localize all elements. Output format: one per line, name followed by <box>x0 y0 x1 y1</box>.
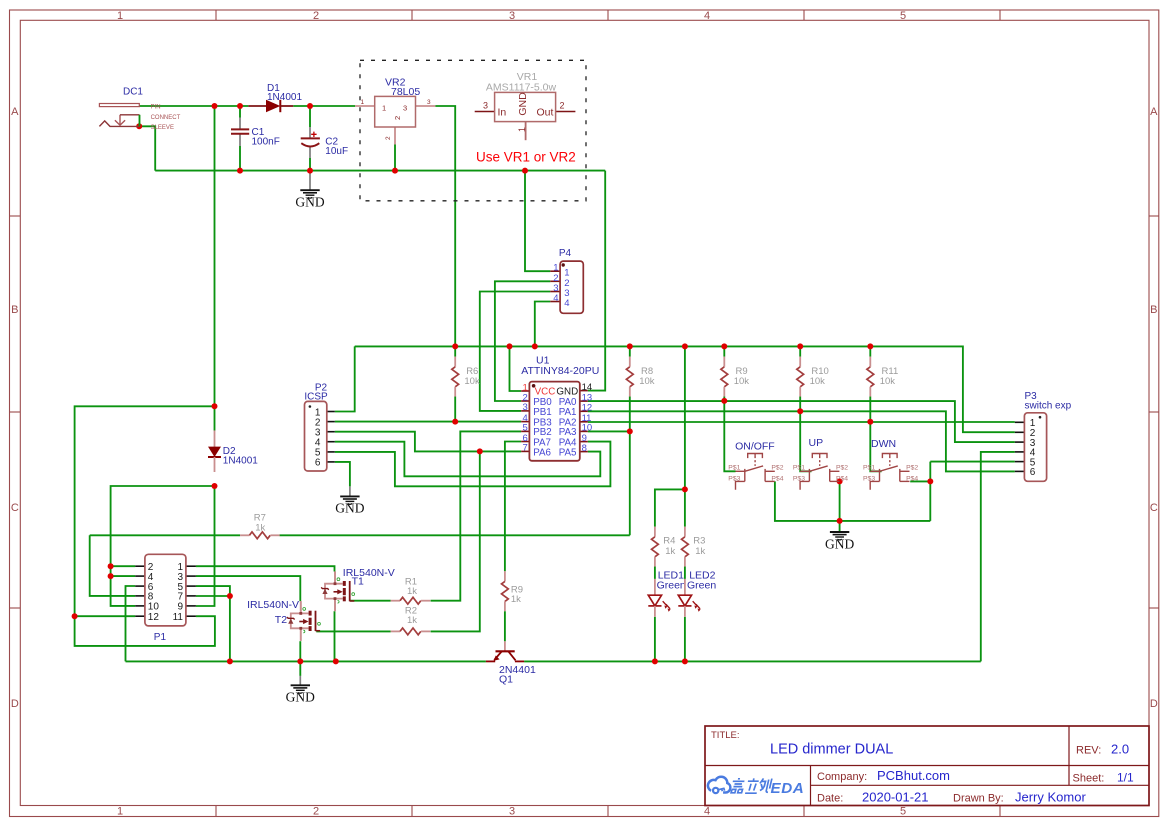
wire P1 pin12 <box>75 615 136 617</box>
svg-text:2: 2 <box>313 10 319 22</box>
button UP <box>793 437 848 490</box>
svg-text:UP: UP <box>809 437 824 449</box>
svg-text:PA6: PA6 <box>533 447 551 458</box>
wire PA0 row to P3 pin3 <box>588 401 1015 442</box>
svg-text:PA5: PA5 <box>559 447 577 458</box>
svg-text:Company:: Company: <box>817 771 867 783</box>
diode D2 1N4001 <box>208 430 258 472</box>
resistor R6 10k <box>452 357 480 397</box>
ic U1 ATTINY84-20PU <box>521 355 599 461</box>
connector P4 <box>550 248 583 313</box>
svg-text:B: B <box>11 304 18 316</box>
svg-text:4: 4 <box>704 10 710 22</box>
svg-text:PCBhut.com: PCBhut.com <box>877 768 950 783</box>
wire P2 pin4 to U1 pin8 PA5 <box>335 442 601 477</box>
ground symbol under T2 <box>286 685 315 704</box>
svg-text:2: 2 <box>393 116 402 120</box>
resistor R3 1k <box>682 527 706 567</box>
node top wire junctions <box>212 103 218 109</box>
svg-text:10k: 10k <box>810 376 826 387</box>
svg-text:CONNECT: CONNECT <box>151 115 181 121</box>
wire R11 top <box>869 346 871 356</box>
wire T2 source to gnd rail <box>299 641 301 661</box>
svg-text:1k: 1k <box>407 586 417 597</box>
wire VR2 pin2 to gnd rail <box>394 145 396 171</box>
wire P1 pin1 to T1 drain <box>196 566 335 571</box>
node DWN P$4 <box>927 478 933 484</box>
regulator VR1 AMS1117-5.0w (unused) <box>475 71 576 140</box>
node button gnd <box>837 518 843 524</box>
wire P1 pin3 to T2 drain <box>196 576 300 601</box>
wire P4 pin2 to U1 pin2 <box>495 281 550 401</box>
ground symbol under P2 <box>335 496 364 515</box>
resistor R1 1k <box>391 576 431 604</box>
wire D2 anode stub <box>214 406 216 430</box>
svg-text:4: 4 <box>553 293 558 304</box>
wire +12 top from DC1 pin to D1 anode <box>139 105 248 107</box>
node DC1 sleeve <box>136 123 142 129</box>
wire P1 pin6 to gnd rail <box>126 586 136 661</box>
node R10 bottom <box>797 408 803 414</box>
svg-text:Drawn By:: Drawn By: <box>953 793 1004 805</box>
wire C1 bottom <box>239 146 241 171</box>
svg-text:In: In <box>498 107 507 119</box>
wire P1 pin11 to +12 net <box>75 406 215 646</box>
wire U1 pin6 PA7 to R9 <box>505 442 521 572</box>
svg-text:Use VR1 or VR2: Use VR1 or VR2 <box>476 150 576 165</box>
wire R4 to LED1 <box>654 567 656 579</box>
transistor Q1 2N4401 <box>486 641 536 685</box>
node P1 pin7 tap <box>227 593 233 599</box>
svg-text:B: B <box>1150 304 1157 316</box>
node bottom rail junctions <box>227 658 233 664</box>
wire T2 gnd symbol stub <box>299 661 301 676</box>
svg-text:IRL540N-V: IRL540N-V <box>343 567 395 579</box>
svg-text:2: 2 <box>313 806 319 818</box>
svg-text:100nF: 100nF <box>252 137 280 148</box>
wire R10 bottom to UP <box>800 397 811 472</box>
svg-text:1: 1 <box>117 10 123 22</box>
svg-text:T1: T1 <box>352 575 364 587</box>
svg-text:ATTINY84-20PU: ATTINY84-20PU <box>521 365 599 377</box>
led LED1 Green <box>648 569 686 617</box>
wire R8 bottom to R7 row <box>629 397 631 536</box>
wire R6 bottom / PB3 net P2 pin2 to U1 pin4 <box>454 397 456 422</box>
svg-text:switch exp: switch exp <box>1025 401 1072 412</box>
wire +12 vertical to D2 <box>214 106 216 406</box>
wire P1 pin5/7 to gnd rail <box>196 586 230 661</box>
svg-text:11: 11 <box>173 612 184 623</box>
svg-text:Jerry Komor: Jerry Komor <box>1015 790 1086 805</box>
wire R3 to LED2 <box>684 567 686 579</box>
svg-text:A: A <box>11 106 19 118</box>
svg-text:1/1: 1/1 <box>1117 771 1134 785</box>
resistor R10 10k <box>797 357 829 397</box>
node LED branch <box>682 486 688 492</box>
wire T2 gate to R2 <box>316 630 390 632</box>
svg-text:Date:: Date: <box>817 793 843 805</box>
svg-text:1k: 1k <box>695 546 705 557</box>
wire VR2 pin3 to +5 rail <box>435 106 455 346</box>
svg-text:3: 3 <box>483 101 488 111</box>
regulator VR2 78L05 <box>355 77 435 145</box>
wire T1 gate to R1 <box>351 600 391 602</box>
svg-text:10k: 10k <box>464 376 480 387</box>
svg-text:10uF: 10uF <box>325 146 348 157</box>
resistor R11 10k <box>867 357 898 397</box>
svg-text:DC1: DC1 <box>123 87 143 98</box>
node P1 pin12 tap <box>72 613 78 619</box>
wire gnd rail power section <box>155 170 605 172</box>
wire P4 pin4 to +5 rail <box>535 302 551 347</box>
svg-text:3: 3 <box>403 104 407 113</box>
ground symbol under C2 <box>295 190 324 209</box>
connector DC1 <box>99 87 180 132</box>
wire button gnd stub <box>839 521 841 532</box>
svg-text:2.0: 2.0 <box>1111 742 1129 757</box>
svg-text:1k: 1k <box>665 546 675 557</box>
svg-text:C: C <box>1150 502 1158 514</box>
wire P2 pin3 to U1 pin7 PA6 <box>335 432 521 452</box>
wire DWN P$4 extension <box>910 480 930 482</box>
wire C2 bottom <box>309 158 311 171</box>
svg-text:8: 8 <box>582 443 587 454</box>
led LED2 Green <box>678 569 716 617</box>
wire T1 source to gnd rail <box>334 611 336 661</box>
diode D1 1N4001 <box>248 83 302 112</box>
svg-text:P4: P4 <box>559 248 572 259</box>
svg-text:IRL540N-V: IRL540N-V <box>247 599 299 611</box>
wire D2 bottom row to P1 pins 2/4/10 <box>111 486 215 606</box>
resistor R9 10k (button pullup) <box>721 357 749 397</box>
wire gnd rail bottom left <box>126 660 486 662</box>
wire C2 gray leads <box>309 127 311 138</box>
wire P3 pin5 to button gnd <box>930 461 1015 463</box>
svg-text:3: 3 <box>427 99 431 106</box>
svg-text:14: 14 <box>582 382 593 393</box>
wire P4 pin3 to U1 pin3 <box>480 292 551 411</box>
svg-text:4: 4 <box>704 806 710 818</box>
connector P3 switch exp <box>1015 391 1072 481</box>
gnd stub P2 <box>349 486 351 496</box>
wire R11 bottom to DWN <box>870 397 881 472</box>
EasyEDA logo <box>708 777 804 797</box>
wire R9b bottom to ON/OFF <box>724 397 735 472</box>
glyph li <box>745 778 759 793</box>
svg-text:LED dimmer DUAL: LED dimmer DUAL <box>770 742 893 758</box>
svg-text:7: 7 <box>523 443 528 454</box>
node R6 bottom <box>452 419 458 425</box>
gnd stub under C2 <box>309 171 311 190</box>
svg-text:T2: T2 <box>275 614 287 626</box>
wire led cathode rail right of Q1 <box>524 660 981 662</box>
wire R10 top <box>799 346 801 356</box>
wire +5 rail to LED columns <box>684 346 686 489</box>
button ON/OFF <box>728 440 783 489</box>
wire PA1 row to P3 pin1 <box>588 421 1015 423</box>
svg-text:Sheet:: Sheet: <box>1073 773 1105 785</box>
node P1 pin2/4 taps <box>108 563 114 569</box>
connector P2 ICSP <box>304 383 334 471</box>
title block <box>705 726 1149 806</box>
svg-text:EDA: EDA <box>771 780 805 797</box>
svg-text:5: 5 <box>900 806 906 818</box>
svg-text:Green: Green <box>687 579 716 591</box>
wire P3 pin4 to LED cathode rail <box>981 452 1015 662</box>
svg-text:Green: Green <box>657 579 686 591</box>
wire P2 pin5 to U1 pin9 PA4 <box>335 442 611 487</box>
svg-text:Out: Out <box>537 107 554 119</box>
resistor R7 1k <box>240 513 280 539</box>
svg-text:10k: 10k <box>880 376 896 387</box>
transistor T1 IRL540N-V <box>321 567 395 611</box>
wire PA6 branch to R2 <box>431 451 480 631</box>
resistor R4 1k <box>652 527 676 567</box>
wire gnd rail to U1 pin14 <box>588 171 605 391</box>
node R11 bottom <box>867 419 873 425</box>
wire U1 pin5 PB2 to R1 <box>431 431 522 600</box>
wire R9 bottom to Q1 base <box>504 611 506 641</box>
svg-text:12: 12 <box>148 612 160 623</box>
svg-text:ON/OFF: ON/OFF <box>735 440 775 452</box>
svg-text:1k: 1k <box>407 615 417 626</box>
svg-text:3: 3 <box>509 10 515 22</box>
wire C1 top <box>239 106 241 118</box>
wire D1 cathode to VR2 pin1 <box>293 105 355 107</box>
button DWN <box>863 438 918 490</box>
svg-text:5: 5 <box>900 10 906 22</box>
svg-text:1N4001: 1N4001 <box>267 92 302 103</box>
wire D2 bottom to P1 pin9 <box>196 486 215 606</box>
svg-text:D: D <box>11 698 19 710</box>
svg-text:C: C <box>11 502 19 514</box>
svg-text:1: 1 <box>517 127 527 132</box>
wire P1 pin8 to R7 <box>90 535 136 596</box>
node LED bottoms <box>652 658 658 664</box>
svg-text:1k: 1k <box>255 522 265 533</box>
wire LED1 to rail <box>654 617 656 662</box>
svg-text:TITLE:: TITLE: <box>711 730 740 741</box>
resistor R2 1k <box>391 605 431 634</box>
wire PA3 row to R8 <box>588 430 630 432</box>
node PA6 branch <box>477 448 483 454</box>
svg-text:SLEEVE: SLEEVE <box>151 125 174 131</box>
svg-text:1: 1 <box>382 104 386 113</box>
svg-text:DWN: DWN <box>871 438 896 450</box>
wire LED2 to rail <box>684 617 686 662</box>
glyph chuang <box>759 778 772 792</box>
node +5 rail junctions <box>452 343 458 349</box>
dashed selection box around VR1/VR2 <box>360 60 586 201</box>
svg-text:GND: GND <box>286 689 315 704</box>
node UP P$4 <box>837 478 843 484</box>
gray capacitor / gnd lead segments <box>240 118 840 685</box>
svg-text:2020-01-21: 2020-01-21 <box>862 790 929 805</box>
wire +5 rail <box>355 346 1015 432</box>
svg-text:6: 6 <box>1030 467 1036 478</box>
svg-text:R3: R3 <box>693 536 705 547</box>
node D2 bottom <box>212 483 218 489</box>
svg-text:GND: GND <box>825 536 854 551</box>
wire C1 gray leads <box>239 118 241 130</box>
wire PA2 row to P3 pin6 <box>588 411 1015 471</box>
svg-text:1: 1 <box>117 806 123 818</box>
svg-text:D: D <box>1150 698 1158 710</box>
transistor T2 IRL540N-V <box>247 599 320 641</box>
svg-text:1N4001: 1N4001 <box>223 455 258 466</box>
wire +5 rail to U1 pin1 VCC <box>510 346 522 391</box>
wire P2 pin6 to gnd <box>335 462 350 487</box>
svg-text:2: 2 <box>385 136 392 140</box>
svg-text:GND: GND <box>517 92 529 116</box>
capacitor C2 10uF polarized <box>301 132 348 157</box>
svg-text:P1: P1 <box>154 632 167 643</box>
node R8 bottom <box>627 428 633 434</box>
svg-text:12: 12 <box>582 403 593 414</box>
resistor R8 10k <box>626 357 654 397</box>
svg-text:10k: 10k <box>734 376 750 387</box>
gnd stub T2 <box>299 676 301 685</box>
svg-text:10k: 10k <box>639 376 655 387</box>
ground symbol under buttons <box>825 532 854 551</box>
svg-text:R4: R4 <box>663 536 675 547</box>
wire R9b top <box>723 346 725 356</box>
svg-text:6: 6 <box>315 458 321 469</box>
wire ON/OFF P$4 to button gnd rail <box>775 481 930 521</box>
svg-text:1k: 1k <box>511 594 521 605</box>
wire gnd rail to P4 pin1 <box>525 171 550 272</box>
svg-text:3: 3 <box>523 402 528 413</box>
node gnd rail junctions <box>237 168 243 174</box>
wire R6 top <box>454 346 456 356</box>
svg-text:A: A <box>1150 106 1158 118</box>
wire DC1 sleeve to gnd rail <box>139 126 155 170</box>
svg-text:GND: GND <box>295 194 324 209</box>
node D2 top <box>212 403 218 409</box>
svg-text:REV:: REV: <box>1076 745 1101 757</box>
node R9 bottom <box>721 398 727 404</box>
svg-text:2: 2 <box>560 101 565 111</box>
wire P2 pin1 to +5 rail <box>335 346 355 411</box>
wire C2 top <box>309 106 311 127</box>
wire R7 row to P1 pin8 <box>90 534 240 536</box>
gnd stub buttons <box>839 530 841 533</box>
svg-text:ICSP: ICSP <box>304 392 328 403</box>
resistor R9 1k (Q1 base) <box>502 571 524 611</box>
connector P1 <box>135 554 196 643</box>
svg-text:4: 4 <box>564 298 569 309</box>
svg-text:AMS1117-5.0w: AMS1117-5.0w <box>486 82 557 94</box>
svg-text:Q1: Q1 <box>499 674 513 686</box>
glyph jia <box>731 779 745 793</box>
svg-text:PIN: PIN <box>151 104 161 110</box>
svg-text:3: 3 <box>509 806 515 818</box>
wire UP P$4 leg <box>839 481 841 521</box>
capacitor C1 100nF <box>231 127 280 148</box>
wire R8 top <box>629 346 631 356</box>
svg-text:GND: GND <box>335 501 364 516</box>
svg-text:1: 1 <box>361 99 365 106</box>
svg-text:78L05: 78L05 <box>391 86 420 98</box>
